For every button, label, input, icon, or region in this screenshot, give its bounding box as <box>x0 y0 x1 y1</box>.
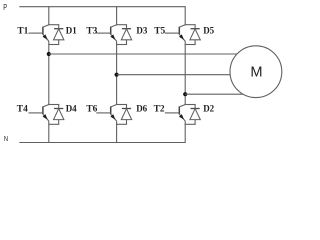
junction node phase 1 <box>47 52 51 56</box>
wire: top link T2 collector to diode cathode <box>185 104 196 106</box>
wire: phase 1 output to motor <box>49 53 238 55</box>
diode D3 (anti-parallel, cathode up) <box>121 25 131 45</box>
svg-text:T4: T4 <box>17 104 28 114</box>
transistor T2 <box>179 105 185 122</box>
svg-text:T6: T6 <box>86 104 97 114</box>
svg-text:D4: D4 <box>66 104 77 114</box>
svg-text:T2: T2 <box>154 104 165 114</box>
transistor T4 <box>43 105 49 122</box>
wire: leg 2 upper (P rail to T3 collector) <box>116 6 118 25</box>
wire: top link T5 collector to diode cathode <box>185 24 196 26</box>
gate lead of T2 <box>165 112 179 114</box>
wire: leg 3 upper (P rail to T5 collector) <box>184 6 186 25</box>
transistor T5 <box>179 25 185 42</box>
wire: bottom link T2 emitter to diode anode <box>185 123 196 125</box>
svg-text:M: M <box>250 64 262 80</box>
gate lead of T4 <box>29 112 43 114</box>
gate lead of T5 <box>165 32 179 34</box>
wire: bottom link T4 emitter to diode anode <box>48 123 59 125</box>
gate lead of T3 <box>96 32 110 34</box>
svg-text:D2: D2 <box>203 104 214 114</box>
diode D6 (anti-parallel, cathode up) <box>121 105 131 125</box>
wire: top link T3 collector to diode cathode <box>116 24 127 26</box>
wire: phase 3 output to motor <box>185 93 243 95</box>
diode D4 (anti-parallel, cathode up) <box>54 105 64 125</box>
svg-text:N: N <box>4 134 8 143</box>
svg-text:D1: D1 <box>66 26 77 36</box>
svg-text:D3: D3 <box>136 26 147 36</box>
wire: leg 2 middle (T3 emitter to T6 collector) <box>116 41 118 105</box>
svg-text:T5: T5 <box>154 26 165 36</box>
wire: leg 1 middle (T1 emitter to T4 collector) <box>48 41 50 105</box>
gate lead of T1 <box>29 32 43 34</box>
junction node phase 3 <box>183 92 187 96</box>
svg-text:T3: T3 <box>86 26 97 36</box>
wire: bottom link T6 emitter to diode anode <box>116 123 127 125</box>
svg-text:D6: D6 <box>136 104 147 114</box>
wire: bottom link T5 emitter to diode anode <box>185 44 196 46</box>
gate lead of T6 <box>96 112 110 114</box>
svg-text:T1: T1 <box>17 26 28 36</box>
wire: bottom link T1 emitter to diode anode <box>48 44 59 46</box>
wire: leg 3 lower (T2 emitter to N rail) <box>184 121 186 143</box>
wire: phase 2 output to motor <box>117 74 231 76</box>
wire: top link T1 collector to diode cathode <box>48 24 59 26</box>
junction node phase 2 <box>115 73 119 77</box>
wire: top link T6 collector to diode cathode <box>116 104 127 106</box>
wire: top link T4 collector to diode cathode <box>48 104 59 106</box>
wire: leg 1 upper (P rail to T1 collector) <box>48 6 50 25</box>
wire: leg 2 lower (T6 emitter to N rail) <box>116 121 118 143</box>
transistor T6 <box>110 105 116 122</box>
motor M <box>230 46 282 98</box>
wire: leg 1 lower (T4 emitter to N rail) <box>48 121 50 143</box>
transistor T3 <box>110 25 116 42</box>
svg-text:P: P <box>3 2 7 12</box>
diode D2 (anti-parallel, cathode up) <box>190 105 200 125</box>
wire: bottom link T3 emitter to diode anode <box>116 44 127 46</box>
N bus wire <box>19 142 185 144</box>
wire: leg 3 middle (T5 emitter to T2 collector) <box>184 41 186 105</box>
transistor T1 <box>43 25 49 42</box>
P bus wire <box>19 6 185 8</box>
diode D5 (anti-parallel, cathode up) <box>190 25 200 45</box>
svg-text:D5: D5 <box>203 26 214 36</box>
diode D1 (anti-parallel, cathode up) <box>54 25 64 45</box>
